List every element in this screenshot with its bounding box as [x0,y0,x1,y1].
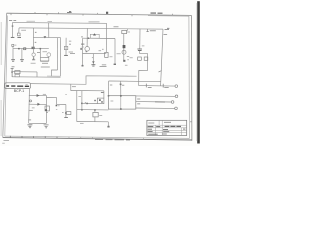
U2 pin labels right [137,99,140,104]
ground G3 [11,60,15,62]
stub S2 on rail2 [127,29,129,31]
label row y53.6 left [70,53,75,55]
border frame inner left [5,16,8,137]
RB label [101,91,104,93]
resistor R6 [64,46,68,49]
K1 label left [81,36,83,38]
K2 dark blob [45,109,47,111]
component box RB [97,98,104,104]
resistor R7 on x106.5 [105,52,108,57]
wire y71.7 [12,71,37,73]
wire x46.5 [45,96,47,124]
wire C3 jog down [139,51,148,86]
D3 left tick [92,57,93,59]
wire y84 label tick [26,84,28,86]
R6 labels [69,41,73,52]
resistor R11 [93,112,98,117]
wire y70 jog [52,70,58,76]
wire x108.5 down to box [108,81,110,96]
wire x115 [114,39,116,65]
bottom zone text left [4,140,10,142]
title text row3 [148,131,170,133]
x87 label [85,101,86,103]
x163 label3 [159,71,162,72]
diode D1 on rail4 [44,36,47,38]
resistor R8 [123,45,126,48]
top border zone ticks [11,12,173,16]
ground G4 [20,60,24,62]
wire y76.5 long [12,76,60,78]
G7 label [100,65,107,67]
resistor R3 dark blob [32,47,35,49]
wire y86.5 to terminal [139,85,175,88]
resistor R9 [138,57,142,60]
IC box U1 on rail2 [122,30,127,33]
blob below jog corner [56,105,58,107]
D4 label [43,93,46,95]
capacitor C3 [137,49,142,50]
diode D5 [37,103,40,106]
junction dots y110 [94,109,96,111]
bar on x82.5 [81,43,84,45]
title block columns [156,120,182,135]
relay box K1 [90,34,99,38]
junction marks [33,58,34,59]
title text row1 [148,126,161,128]
y53.6 labels [99,49,104,51]
wire y81 [109,80,161,83]
power stub P2 [11,68,14,77]
x70.5 label2 [78,96,81,98]
wire R11 top [94,110,96,113]
wire y103.4 [82,102,97,104]
diode D3 chain x93.3 [92,54,94,65]
wire x70.5 [70,84,72,91]
cluster labels [41,63,50,67]
node x87 blob [86,103,88,105]
ground G10 [123,60,125,62]
Q1 Q2 labels [37,51,47,54]
y121.5 label [80,122,84,124]
x163 arrow symbol [165,28,170,29]
diode D4 [37,94,40,97]
border frame inner top-right [148,16,189,139]
wire y90.6 [71,90,104,92]
scan edge dark strip right [197,1,200,143]
U2 divider [120,96,122,109]
x163 label2 [164,34,168,36]
R7 label [110,56,113,58]
blob end x82.5 [82,65,84,67]
Q5 dark blob [80,48,81,50]
resistor R2 on rail3 [24,48,26,50]
S1 label [150,30,156,32]
wire x103.9 [103,91,105,98]
U2 label [111,100,114,102]
node J1 junction [12,25,14,26]
wire y121.5 [77,121,109,123]
ground G7 [91,65,95,66]
wire x108.3 down [107,122,109,126]
border frame outer bottom [3,138,192,140]
wire y104.4 right [57,103,66,105]
wire x82.5 [81,38,83,65]
bottom border zone ticks [10,136,57,139]
border frame outer top [7,13,192,15]
wire y76.2 short over [47,75,61,77]
x108.5 label [110,84,112,86]
CN2 dark segment [155,101,165,103]
end blob [107,126,109,128]
IC box U2 [108,96,135,109]
wire x140 from rail2 [139,29,141,49]
ground G11 multibar [27,125,32,128]
terminal T0 circle [175,85,178,88]
wire rail2 [19,28,163,29]
wire y38.3 [83,37,115,39]
capacitor C2 drop x22 [21,49,23,60]
x28.8 label [28,119,31,121]
wire y53.6 [83,53,107,55]
diode D2 in K1 [93,33,96,35]
resistor R10 [144,57,148,60]
top zone dark blob [106,12,108,14]
title top cell text [148,121,171,124]
RB dots [99,99,101,101]
x120.5 label [122,84,124,86]
R9 label [130,57,133,59]
wire drop x40.5 [39,49,41,58]
drawing number text [165,125,181,127]
wire y97.5 jog [47,98,57,105]
resistor R1 label [21,29,26,31]
resistor R5 [15,74,19,76]
wire R11 down [94,117,96,122]
y86.5 tick2 [163,84,169,88]
wire vertical x60.5 [60,38,62,77]
title block rows [147,125,187,132]
wire x66 [65,38,67,56]
wire x76.8 [76,91,78,122]
rail2 label mid [114,26,119,28]
C3 label [142,45,145,47]
wire x65.9 [65,105,67,118]
wire vertical x57.5 [57,38,59,70]
wire rail1 top [12,22,106,25]
vertical stubs to bar [40,57,49,62]
wire y57.5 [40,56,49,58]
wire y123.3 [29,122,47,124]
CN3 line [136,107,175,109]
top zone sheet text [151,12,163,14]
ground G1 [11,36,15,38]
wire right drop x163 [161,29,163,86]
node label top-left [9,20,16,22]
K1 junction blob [88,38,90,39]
wire rail2 left drop x19 [18,28,20,33]
connector line CN1 [136,95,176,97]
scan background [0,0,200,146]
wire x81.9 [81,91,83,110]
wire rail4 y37.4 [33,36,60,38]
wire drop left x12.5 [11,23,13,38]
top zone symbol [67,11,72,12]
RB pin blob [94,100,96,101]
R8 labels [127,57,129,60]
wire drop x33.4 from rail2 [32,28,34,53]
jog labels [56,106,60,110]
ground G14 [64,117,68,119]
x33.4 labels [35,32,37,42]
x120.5 tick blob [120,84,122,86]
CN3 terminal [175,107,178,110]
transistor Q6 [122,50,126,54]
ground G6 [64,54,68,56]
wire rail3 y48.5 [13,47,49,49]
component box X1 [66,112,71,115]
scan edge left artifacts [0,22,2,136]
wire y84 from pill [31,76,137,85]
power symbol P1 [12,44,14,46]
ground G9 [114,64,116,65]
relay box K2 [45,106,49,111]
x82.5 marks [82,46,85,48]
ground G2 [17,36,21,38]
border frame outer right [190,15,193,140]
R11 label [99,114,102,116]
title block outline [147,120,187,135]
wire y104.3 [29,103,47,105]
wire jog x37 [36,72,38,77]
cluster left label [32,107,35,109]
zone tick right [190,121,192,123]
y86.5 tick1 [146,84,151,88]
resistor R1 on x19 [18,33,21,36]
wire y110 [77,109,109,111]
wire rail1 text above [27,20,100,23]
transistor Q2 [47,53,51,57]
K2 under mark [46,111,48,113]
node x81.9 junctions [81,103,83,105]
cluster ground bar [40,60,49,62]
resistor R4 [15,71,20,74]
transistor Q1 [32,53,35,56]
wire drop x48.8 from rail1 [48,23,50,38]
wire drop x87.2 from rail2 [86,29,88,47]
pill pin text [6,85,29,87]
X1 blob [65,112,67,113]
x70.5 label [72,86,76,88]
bottom zone text mid [95,139,130,141]
node J3 [11,71,13,72]
transistor Q5 [85,47,90,52]
capacitor C1 drop x13 [12,49,14,60]
wire x124 [123,34,125,61]
stub S1 on rail2 [146,29,149,32]
CN1 terminal [175,95,178,98]
Q5 bottom mark [86,51,88,52]
border frame outer left [3,13,7,137]
wire y95.5 [29,94,47,96]
border inner bottom [5,136,190,138]
bottom-left cluster: wire x28.8 [28,89,31,123]
CN2 line [136,101,172,103]
title text row2 [148,128,186,130]
title text row4 [148,133,167,135]
wire drop x106.5 from rail1 [105,23,107,52]
bottom-left stray mark [2,142,5,144]
connector pill BCP-1 [5,83,31,89]
x115 label [117,53,121,55]
junction circle JC1 [30,100,32,102]
stub y110.6 [29,110,33,112]
wire x120.5 down to box [120,81,122,96]
CN2 terminal [171,101,174,104]
ground G3 label [12,66,15,68]
svg-text:BCP-1: BCP-1 [14,89,24,93]
ground G12 multibar [44,125,49,128]
X1 label [62,112,64,114]
node J2 [18,48,20,50]
